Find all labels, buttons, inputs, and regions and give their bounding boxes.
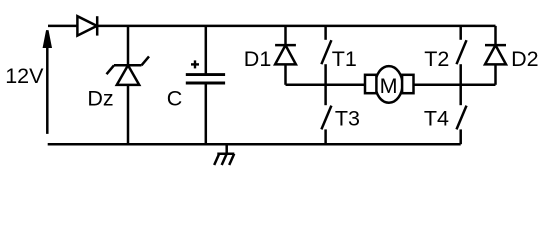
svg-text:C: C	[167, 87, 183, 111]
svg-text:T3: T3	[335, 107, 360, 131]
svg-text:D2: D2	[511, 47, 538, 71]
svg-text:M: M	[380, 74, 398, 98]
svg-text:D1: D1	[244, 47, 271, 71]
svg-text:T1: T1	[332, 47, 357, 71]
svg-text:12V: 12V	[5, 64, 44, 88]
svg-text:T2: T2	[424, 47, 449, 71]
svg-text:Dz: Dz	[87, 87, 113, 111]
svg-text:T4: T4	[424, 107, 449, 131]
